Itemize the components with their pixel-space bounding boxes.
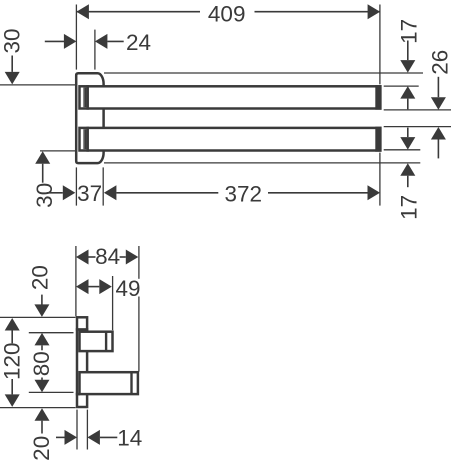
extension line: lower arm front (84), upper part (138, 246, 140, 279)
svg-text:20: 20 (29, 436, 54, 461)
right side tick: arm2 bottom (384, 149, 421, 151)
svg-text:80: 80 (29, 351, 54, 376)
extension line: 14 dim left (76, 410, 78, 450)
extension line: bar right end, lower part (379, 153, 381, 206)
extension line: 24 dim right (94, 30, 96, 70)
dimension 26 (far right) (427, 50, 451, 159)
tick: lower arm bottom (80 dim) (29, 391, 74, 393)
dimension 24 (45, 30, 151, 55)
svg-text:49: 49 (116, 276, 141, 301)
extension line: lower arm front (84), lower part (138, 297, 140, 372)
svg-text:30: 30 (0, 28, 25, 53)
svg-text:372: 372 (225, 182, 263, 207)
dimension 20 (lower) (29, 408, 54, 461)
dimension 20 (upper) (28, 265, 53, 317)
svg-text:37: 37 (77, 181, 102, 206)
arm2 bottom edge extension to left (40, 150, 75, 152)
extension line: 14 dim right (86, 410, 88, 450)
svg-text:14: 14 (117, 425, 142, 450)
right side tick: arm2 top (384, 126, 451, 128)
towel arm 1 (plan view) (80, 85, 382, 110)
wall plate (side profile) (76, 317, 89, 407)
dimension 30 (top left) (0, 28, 25, 84)
dimension 372 (104, 182, 380, 207)
towel arm 2 (plan view) (80, 127, 382, 152)
right side tick: arm1 bottom (384, 109, 451, 111)
dimension 30 (bottom left) (32, 151, 57, 208)
dimension 80 (29, 333, 54, 392)
svg-text:30: 30 (32, 183, 57, 208)
arm1 top edge extension to left (0, 84, 75, 86)
right side tick: arm1 top (384, 85, 419, 87)
extension line: bar right end, upper part (379, 5, 381, 85)
plate bottom extension to left (0, 407, 76, 409)
extension line: plate right edge (372 dim left) (102, 167, 104, 205)
wall plate (plan view) (76, 73, 103, 163)
extension line: upper arm front (49) (112, 276, 114, 330)
svg-text:17: 17 (397, 19, 422, 44)
dimension 17 (top right) (397, 19, 422, 109)
dimension 14 (56, 425, 142, 450)
dimension 84 (76, 244, 138, 269)
lower arm (side profile) (80, 372, 138, 395)
svg-text:120: 120 (0, 342, 24, 380)
dimension 120 (0, 318, 24, 407)
extension line: wall, lower part (75, 167, 77, 205)
svg-text:24: 24 (126, 30, 151, 55)
plate top level line (thin, to right ticks) (104, 72, 423, 74)
svg-text:20: 20 (28, 265, 53, 290)
tick: upper arm top (80 dim) (29, 332, 74, 334)
svg-text:26: 26 (427, 50, 451, 75)
dimension 17 (bottom right) (397, 128, 422, 220)
plate top extension to left (0, 316, 76, 318)
extension line: wall (side view) (75, 246, 77, 316)
extension line: wall (left of plate), upper part (75, 5, 77, 70)
svg-text:17: 17 (397, 195, 422, 220)
plate bottom level line (thin, to right ticks) (104, 162, 420, 164)
upper arm (side profile) (80, 331, 113, 352)
dimension 409 (76, 1, 380, 26)
dimension 37 (47, 181, 102, 206)
svg-text:84: 84 (95, 244, 120, 269)
svg-text:409: 409 (208, 1, 246, 26)
dimension 49 (76, 276, 141, 301)
